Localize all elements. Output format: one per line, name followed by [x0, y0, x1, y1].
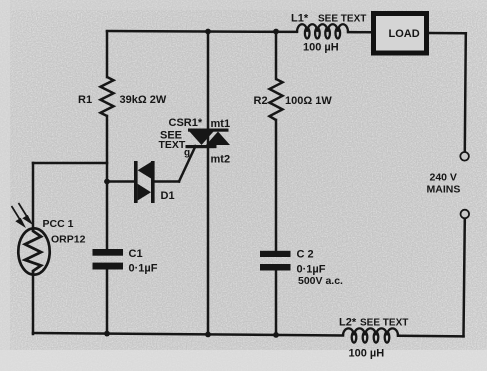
- wire bottom right of L2: [398, 335, 464, 338]
- svg-text:R2: R2: [254, 95, 268, 107]
- light arrow 1: [12, 206, 24, 226]
- node bottom left rail junction: [104, 331, 110, 337]
- inductor L2: [343, 328, 398, 342]
- svg-text:TEXT: TEXT: [159, 139, 186, 151]
- wire right rail lower (bottom terminal to corner): [464, 219, 465, 337]
- wire diac branch right: [155, 180, 180, 183]
- terminal mains lower: [461, 210, 470, 219]
- svg-text:PCC 1: PCC 1: [43, 218, 74, 230]
- svg-text:mt2: mt2: [211, 154, 231, 166]
- svg-text:0·1µF: 0·1µF: [129, 263, 158, 275]
- wire left rail middle segment (R1 to C1): [106, 116, 109, 249]
- wire top left horizontal: [107, 30, 297, 33]
- node bottom triac junction: [205, 332, 211, 338]
- svg-text:SEE TEXT: SEE TEXT: [318, 14, 366, 25]
- load box: [374, 14, 427, 54]
- wire R2 rail bottom segment (C2 to bottom): [275, 271, 278, 336]
- capacitor C2: [260, 251, 291, 271]
- node bottom R2 junction: [273, 332, 279, 338]
- node top triac junction: [205, 29, 211, 35]
- svg-text:ORP12: ORP12: [51, 234, 86, 246]
- wire left rail top segment: [106, 32, 109, 78]
- node top R2 junction: [273, 29, 279, 35]
- svg-text:L2*: L2*: [339, 317, 357, 329]
- svg-text:39kΩ 2W: 39kΩ 2W: [120, 94, 167, 106]
- photocell PCC1 zigzag: [25, 230, 41, 274]
- svg-text:R1: R1: [78, 94, 92, 106]
- wire triac rail (mt1 top to mt2 bottom): [207, 32, 210, 336]
- wire top between L1 and LOAD: [348, 31, 371, 34]
- svg-text:500V a.c.: 500V a.c.: [298, 275, 343, 287]
- svg-text:0·1µF: 0·1µF: [297, 264, 326, 276]
- photocell PCC1 body: [18, 228, 49, 274]
- svg-text:SEE TEXT: SEE TEXT: [360, 318, 408, 329]
- svg-text:D1: D1: [161, 190, 175, 202]
- svg-text:100Ω 1W: 100Ω 1W: [285, 95, 332, 107]
- light arrow 2: [19, 203, 31, 223]
- wire R2 rail top segment: [275, 32, 278, 80]
- svg-text:MAINS: MAINS: [427, 184, 461, 196]
- svg-text:100 µH: 100 µH: [303, 42, 339, 54]
- svg-text:mt1: mt1: [211, 118, 231, 130]
- svg-text:100 µH: 100 µH: [349, 348, 385, 360]
- paper tone shading: [0, 0, 1, 1]
- wire right rail upper (corner to top terminal): [465, 33, 466, 152]
- wire R2 rail middle segment (R2 to C2): [275, 120, 278, 251]
- capacitor C1: [93, 249, 124, 270]
- svg-text:g: g: [184, 148, 190, 159]
- resistor R1: [101, 77, 114, 116]
- wire photocell branch vertical lower: [32, 163, 35, 229]
- inductor L1: [297, 24, 348, 38]
- wire LOAD to top-right corner: [427, 32, 466, 35]
- wire photocell branch vertical upper: [32, 275, 35, 334]
- triac CSR1: [186, 129, 231, 149]
- svg-text:LOAD: LOAD: [389, 28, 420, 40]
- svg-text:C1: C1: [129, 248, 143, 260]
- wire photocell branch top horizontal: [33, 162, 107, 165]
- wire gate diagonal to triac: [179, 146, 196, 182]
- wire bottom horizontal: [33, 333, 343, 336]
- svg-text:CSR1*: CSR1*: [169, 117, 203, 129]
- svg-text:L1*: L1*: [291, 13, 309, 25]
- svg-text:C 2: C 2: [297, 249, 314, 261]
- wire left rail bottom segment (C1 to bottom): [106, 270, 109, 335]
- wire diac branch left: [107, 180, 135, 183]
- svg-text:240 V: 240 V: [430, 172, 457, 184]
- diac D1: [134, 161, 155, 203]
- terminal mains upper: [460, 152, 469, 161]
- resistor R2: [270, 79, 283, 120]
- node diac branch junction: [104, 179, 110, 185]
